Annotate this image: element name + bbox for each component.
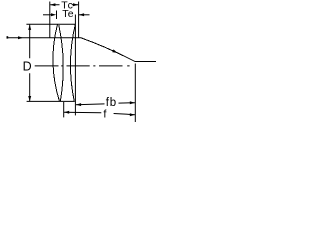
refracted ray to focus	[81, 38, 156, 62]
svg-text:Te: Te	[62, 8, 74, 20]
Tc left extension line (down to ray)	[49, 2, 51, 38]
optical axis (dash-dot)	[35, 65, 130, 67]
Te left leader	[43, 14, 53, 16]
svg-text:D: D	[23, 60, 32, 74]
focal plane extension line	[134, 64, 136, 123]
D top extension line / lens top edge	[26, 23, 75, 25]
f left extension line	[63, 102, 65, 117]
D arrows	[28, 25, 31, 30]
Tc right extension line (down to ray)	[78, 2, 80, 38]
refracted ray arrow	[112, 49, 118, 53]
Te arrows	[51, 13, 56, 16]
fb dimension leaders	[76, 103, 135, 105]
rear edge plane extension line	[74, 15, 76, 116]
D dimension line	[29, 25, 31, 101]
incoming ray arrow	[18, 36, 23, 39]
svg-text:fb: fb	[106, 97, 117, 109]
fb arrows	[76, 103, 81, 106]
Tc leader lines	[50, 4, 78, 6]
lens front surface	[53, 24, 59, 101]
incoming ray	[7, 37, 82, 39]
lens rear surface	[70, 24, 75, 101]
Te left extension bar	[56, 11, 58, 20]
D bottom extension line / lens bottom edge	[27, 100, 75, 102]
Te right leader	[79, 14, 90, 16]
ray start tick	[7, 36, 9, 38]
f dimension leaders	[64, 112, 135, 115]
Tc arrows	[50, 3, 55, 6]
f arrows	[64, 111, 69, 114]
lens internal (cemented) surface	[59, 25, 64, 102]
